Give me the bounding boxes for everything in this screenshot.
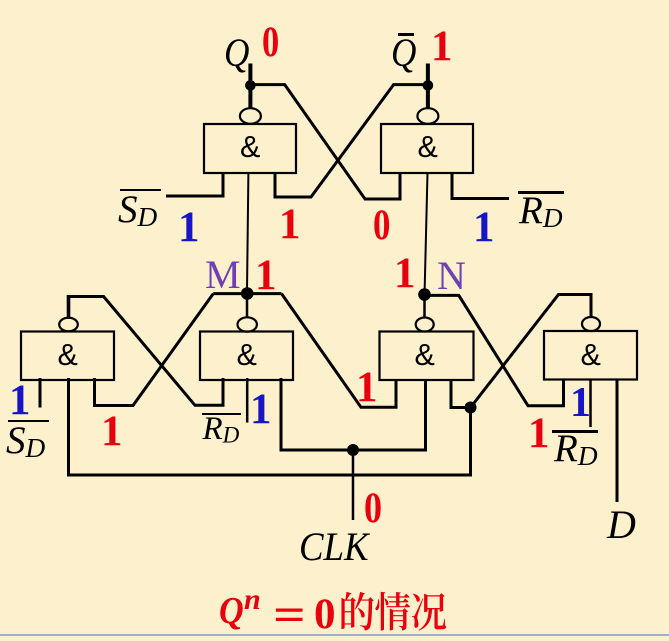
label RD top right [519,191,563,232]
junction on Q [245,80,256,91]
nand gate U3 bubble [59,318,78,332]
nand gate U4 body [200,332,293,381]
nand gate U3 body [21,332,114,381]
wire U3 left input stub SD [39,378,42,408]
value 1 on Qbar [431,25,453,68]
label Qbar [391,33,416,73]
label Q [224,33,249,73]
nand gate U5 body [380,332,474,381]
value 1 red U6 [528,412,550,455]
nand gate U6 bubble [582,317,600,331]
wire U3 output riser [67,295,71,319]
wire node N to U5 output bubble [423,295,426,318]
gate symbol U3 label & [58,340,78,371]
label SD bottom left [6,421,45,462]
gate symbol U6 label & [581,340,601,371]
nand gate U2 body [381,124,473,173]
label RD under U4 [203,413,240,447]
wire Qbar node to U1 right input [275,85,428,197]
caption char 情 [375,592,410,631]
caption Q [219,592,244,630]
wire node M to U5 left input [282,294,397,408]
caption superscript n [244,585,261,615]
value 1 red at N [394,252,416,295]
overbar RD under U6 [552,430,598,433]
wire Q node to U2 left input [250,85,400,199]
value 1 blue SD bottom [9,379,31,422]
overbar SD bottom left [8,420,49,422]
wire Q output stub [248,64,252,110]
wire node M to U4 output bubble [246,294,249,318]
gate symbol U2 label & [418,132,438,163]
nand gate U1 bubble [240,108,261,124]
value 1 red at M [255,254,277,297]
nand gate U4 bubble [238,317,257,331]
junction on Qbar [423,80,434,91]
wire U2 middle input to node N [425,173,428,292]
caption char 的 [341,592,373,631]
nand gate U6 body [544,331,637,380]
value 1 red U3 right input [101,410,123,453]
wire SD input to U1 left input [166,172,223,196]
wire CLK rail U4 right input to U5 middle input [281,378,426,450]
node label N [437,256,466,296]
label CLK [299,527,369,567]
label D input [607,505,636,545]
wire D input to U6 right input [616,379,619,503]
caption equals sign [273,592,306,639]
wire node M horizontal [213,292,281,295]
wire RD input to U2 right input [452,172,509,199]
junction CLK [347,444,359,456]
value 0 red CLK [364,487,382,530]
wire U1 middle input to node M [247,173,248,291]
nand gate U5 bubble [416,318,434,332]
junction node N [418,288,431,301]
gate symbol U5 label & [415,340,435,371]
value 1 blue U6 mid [570,382,591,424]
wire CLK drop [352,450,355,520]
label RD under U6 [554,429,598,470]
value 0 on Q [262,21,279,64]
overbar SD top left [120,189,161,191]
node label M [205,255,241,295]
nand gate U2 bubble [417,108,438,124]
value 1 blue U4 mid [250,388,272,431]
gate symbol U4 label & [237,340,257,371]
gate symbol U1 label & [240,132,260,163]
value 0 red U2 left [373,204,390,247]
overbar RD under U4 [202,413,241,415]
nand gate U1 body [204,124,296,173]
junction node P [465,402,477,414]
label SD top left [118,190,157,231]
wire U6 output to node P [471,295,592,408]
wire U3 output to U4 left input [67,297,223,406]
value 1 red U1 mid [279,203,301,246]
wire node M to U3 right input [95,294,214,406]
overbar RD top right [518,191,564,194]
value 1 blue RD top [473,206,495,249]
wire U5 right input to node P [451,380,471,408]
overbar of Qbar [398,33,414,36]
value 1 red U5 left input [356,366,378,409]
wire Qbar output stub [426,64,430,110]
bottom rule line [0,634,669,636]
junction node M [241,287,254,300]
wire U4 middle input stub RD [246,378,249,423]
wire node N to U6 left input [425,295,564,405]
value 1 blue SD top [178,206,200,249]
wire node P down and long feedback to U3 middle input [69,378,471,475]
caption 0 [314,593,336,636]
wire U6 middle input stub RD [589,379,592,428]
caption char 况 [412,593,446,630]
